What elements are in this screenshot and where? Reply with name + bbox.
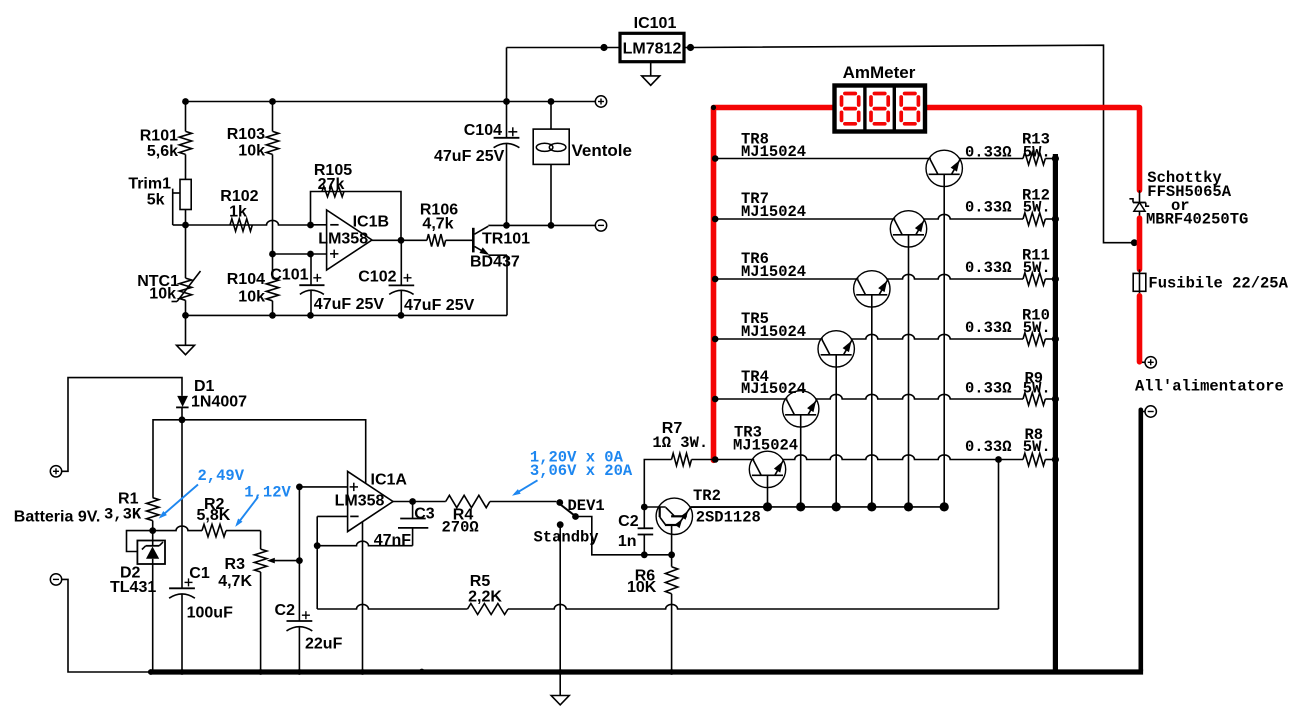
wire: battery - to ground rail bbox=[62, 579, 150, 672]
label R10 bbox=[1022, 307, 1050, 325]
wire: D1 node to IC1A V+ bbox=[182, 420, 366, 483]
svg-text:1,12V: 1,12V bbox=[244, 484, 291, 502]
capacitor C3 47nF bbox=[374, 502, 435, 549]
junction dot TR7 base bbox=[904, 502, 913, 511]
label TL431 bbox=[110, 579, 156, 596]
op-amp IC1A bbox=[335, 471, 408, 531]
wire: fan minus rail bbox=[507, 224, 596, 226]
wire: TR7 collector from red bus bbox=[714, 218, 895, 220]
svg-text:0.33Ω: 0.33Ω bbox=[965, 438, 1012, 456]
resistor R1 bbox=[104, 491, 159, 531]
resistor R105 feedback bbox=[311, 162, 402, 240]
node divider tap bbox=[296, 557, 303, 564]
wire: TR2 emitter bbox=[671, 525, 673, 555]
label 0.33ohm R13 bbox=[965, 143, 1012, 161]
transistor TR101 bbox=[470, 225, 530, 270]
label TR8 bbox=[741, 131, 769, 149]
label TR8 MJ15024 bbox=[741, 143, 806, 161]
terminal - All'alimentatore bbox=[1141, 406, 1156, 417]
svg-text:LM358: LM358 bbox=[335, 493, 385, 510]
svg-text:R104: R104 bbox=[227, 271, 265, 288]
junction dot TR6 base bbox=[867, 502, 876, 511]
svg-text:0.33Ω: 0.33Ω bbox=[965, 319, 1012, 337]
ammeter display box bbox=[835, 86, 926, 132]
label 2SD1128 bbox=[696, 509, 761, 527]
wire: TR5 emitter to R10 bbox=[851, 334, 1023, 339]
junction dot R11 bus bbox=[1052, 275, 1059, 282]
svg-text:0.33Ω: 0.33Ω bbox=[965, 259, 1012, 277]
svg-text:10k: 10k bbox=[238, 143, 265, 160]
svg-text:4,7k: 4,7k bbox=[422, 216, 453, 233]
svg-text:2,49V: 2,49V bbox=[198, 467, 245, 485]
wire: TR6 base drop bbox=[871, 295, 873, 507]
wire: IC1A output bbox=[393, 501, 413, 503]
label DEV1 bbox=[568, 497, 605, 515]
wire: TR2 emitter node rail bbox=[644, 554, 671, 556]
wire: TR3 base drop bbox=[767, 475, 769, 507]
transistor TR3 MJ15024 bbox=[749, 451, 785, 487]
svg-text:47uF 25V: 47uF 25V bbox=[434, 148, 505, 165]
label D2 bbox=[120, 565, 141, 582]
label TR6 bbox=[741, 250, 769, 268]
label All'alimentatore bbox=[1135, 378, 1284, 396]
svg-text:1k: 1k bbox=[229, 204, 247, 221]
svg-text:C3: C3 bbox=[414, 506, 435, 523]
svg-text:IC1A: IC1A bbox=[371, 472, 408, 489]
wire: IC1B + input bbox=[273, 253, 327, 255]
svg-text:MJ15024: MJ15024 bbox=[741, 203, 806, 221]
junction dot R12 bus bbox=[1052, 215, 1059, 222]
label TR7 MJ15024 bbox=[741, 203, 806, 221]
resistor R2 bbox=[153, 496, 261, 537]
terminal + All'alimentatore bbox=[1142, 357, 1156, 368]
terminal - (fan supply) bbox=[595, 220, 606, 231]
label R13 5W. bbox=[1023, 143, 1051, 161]
ground (main) bbox=[551, 672, 569, 705]
svg-text:MJ15024: MJ15024 bbox=[733, 437, 798, 455]
resistor R11 0.33ohm bbox=[1023, 273, 1053, 285]
svg-text:IC1B: IC1B bbox=[353, 214, 389, 231]
resistor R106 bbox=[401, 202, 473, 247]
node IC1A + input bbox=[296, 484, 303, 491]
ammeter label bbox=[843, 63, 916, 82]
svg-text:MJ15024: MJ15024 bbox=[741, 263, 806, 281]
svg-text:R101: R101 bbox=[140, 128, 178, 145]
junction dot TR5 base bbox=[832, 502, 841, 511]
wire: base rail TR2 to TR8 bbox=[691, 506, 945, 508]
svg-text:10k: 10k bbox=[238, 289, 265, 306]
ground (fan section) bbox=[177, 315, 195, 354]
trimmer R3 4,7K bbox=[218, 531, 299, 672]
svg-text:TR2: TR2 bbox=[693, 487, 721, 505]
svg-text:47uF 25V: 47uF 25V bbox=[314, 296, 385, 313]
resistor R10 0.33ohm bbox=[1023, 333, 1053, 345]
svg-text:0.33Ω: 0.33Ω bbox=[965, 143, 1012, 161]
junction dot R13 bus bbox=[1052, 155, 1059, 162]
junction dot R10 bus bbox=[1052, 335, 1059, 342]
wire: TR6 collector from red bus bbox=[714, 278, 859, 280]
capacitor C1 100uF bbox=[169, 420, 233, 672]
wire: black emitter bus bbox=[1053, 154, 1058, 671]
svg-text:Trim1: Trim1 bbox=[128, 176, 171, 193]
junction dot R102/R105/IC1B- bbox=[307, 222, 314, 229]
svg-text:3,06V x 20A: 3,06V x 20A bbox=[530, 462, 633, 480]
corner dot on red bus bbox=[711, 105, 716, 110]
svg-text:10k: 10k bbox=[149, 286, 176, 303]
junction dots on fan ground rail bbox=[182, 312, 404, 319]
label 0.33ohm R11 bbox=[965, 259, 1012, 277]
svg-text:1Ω 3W.: 1Ω 3W. bbox=[652, 434, 708, 452]
svg-text:R102: R102 bbox=[220, 188, 258, 205]
wire: sense feedback R8 to R5 bbox=[998, 460, 1000, 610]
node Trim1/NTC1/R102 bbox=[182, 222, 189, 229]
svg-text:MBRF40250TG: MBRF40250TG bbox=[1146, 211, 1248, 229]
label TR6 MJ15024 bbox=[741, 263, 806, 281]
wire: TR3 collector from red bus bbox=[714, 459, 754, 461]
wire: IC1A V- to ground bbox=[362, 522, 364, 672]
svg-text:BD437: BD437 bbox=[470, 254, 520, 271]
capacitor C104 bbox=[434, 102, 519, 226]
svg-text:2SD1128: 2SD1128 bbox=[696, 509, 761, 527]
resistor R6 bbox=[627, 555, 678, 672]
label 0.33ohm R9 bbox=[965, 380, 1012, 398]
svg-text:R3: R3 bbox=[225, 556, 246, 573]
diode D1 1N4007 bbox=[176, 378, 247, 420]
junction dot TR8 base bbox=[940, 502, 949, 511]
svg-text:5k: 5k bbox=[147, 192, 165, 209]
svg-text:LM7812: LM7812 bbox=[623, 41, 682, 58]
junction dot at schottky cathode wire bbox=[1131, 239, 1138, 246]
capacitor C101 bbox=[270, 254, 384, 315]
wire: TR8 collector from red bus bbox=[714, 158, 931, 160]
resistor R104 bbox=[227, 254, 279, 315]
wire: TR4 emitter to R9 bbox=[815, 394, 1023, 399]
svg-text:270Ω: 270Ω bbox=[442, 519, 479, 537]
wire: +12V top rail bbox=[186, 101, 596, 103]
junction dot TR4 base bbox=[796, 502, 805, 511]
resistor R8 0.33ohm bbox=[1023, 453, 1053, 465]
wire: TR7 base drop bbox=[908, 235, 910, 507]
wire: red ammeter to schottky bbox=[927, 108, 1140, 191]
resistor R101 bbox=[140, 102, 192, 180]
svg-text:100uF: 100uF bbox=[187, 605, 233, 622]
svg-text:C1: C1 bbox=[189, 565, 210, 582]
wire: red schottky to fuse bbox=[1137, 218, 1143, 269]
label 0.33ohm R10 bbox=[965, 319, 1012, 337]
svg-text:4,7K: 4,7K bbox=[218, 573, 252, 590]
label R11 5W. bbox=[1023, 259, 1051, 277]
label R9 bbox=[1025, 370, 1044, 388]
label 0.33ohm R8 bbox=[965, 438, 1012, 456]
svg-text:5W.: 5W. bbox=[1023, 143, 1051, 161]
wire: red collector bus bbox=[714, 108, 834, 461]
regulator IC101 LM7812 bbox=[620, 15, 684, 62]
junction dot red bus / TR6 bbox=[712, 276, 719, 283]
junction dot red bus / TR4 bbox=[712, 396, 719, 403]
junction dots on +12V rail bbox=[182, 98, 554, 105]
wire: main ground rail bbox=[150, 669, 1143, 674]
battery terminal + bbox=[50, 466, 61, 477]
junction dots minus rail bbox=[503, 222, 554, 229]
label TR5 MJ15024 bbox=[741, 323, 806, 341]
annotation 2,49V bbox=[159, 467, 245, 519]
junction dot TR2 emitter node bbox=[668, 551, 675, 558]
node R8 sense tap bbox=[995, 456, 1002, 463]
svg-text:All'alimentatore: All'alimentatore bbox=[1135, 378, 1284, 396]
thermistor NTC1 bbox=[137, 225, 200, 315]
op-amp IC1B bbox=[318, 210, 389, 270]
node R1/D2/R2 bbox=[149, 527, 156, 534]
svg-text:TR101: TR101 bbox=[482, 231, 530, 248]
label 0.33ohm R12 bbox=[965, 199, 1012, 217]
svg-text:MJ15024: MJ15024 bbox=[741, 323, 806, 341]
switch DEV1 common bbox=[556, 499, 563, 506]
wire Trim1 to node bbox=[185, 210, 187, 226]
svg-text:D1: D1 bbox=[194, 378, 215, 395]
wire: TL431 ref loop bbox=[127, 531, 153, 552]
svg-text:IC101: IC101 bbox=[634, 15, 677, 32]
resistor R12 0.33ohm bbox=[1023, 213, 1053, 225]
svg-text:5W.: 5W. bbox=[1023, 438, 1051, 456]
svg-text:5,8K: 5,8K bbox=[197, 507, 231, 524]
resistor R5 2,2K bbox=[317, 573, 998, 615]
label R8 bbox=[1025, 426, 1044, 444]
svg-text:AmMeter: AmMeter bbox=[843, 63, 916, 82]
battery terminal - bbox=[50, 574, 61, 585]
wire: IC1B output bbox=[372, 239, 401, 241]
wire: TR3 emitter to R8 bbox=[782, 455, 1023, 460]
wire: IC1A + input bbox=[299, 486, 347, 488]
svg-text:Standby: Standby bbox=[534, 529, 599, 547]
junction dot red bus / TR8 bbox=[712, 155, 719, 162]
svg-text:2,2K: 2,2K bbox=[468, 589, 502, 606]
label R8 5W. bbox=[1023, 438, 1051, 456]
svg-text:C104: C104 bbox=[464, 122, 502, 139]
label R10 5W. bbox=[1023, 319, 1051, 337]
wire: LM7812 output to schottky junction bbox=[684, 45, 1137, 243]
junction dots on + input bbox=[269, 251, 314, 258]
junction dot R9 bus bbox=[1052, 395, 1059, 402]
wire: TR5 base drop bbox=[835, 355, 837, 507]
svg-text:10K: 10K bbox=[627, 579, 657, 596]
junction dot TR2 base node bbox=[641, 504, 648, 511]
resistor R13 0.33ohm bbox=[1023, 152, 1053, 164]
node D1 cathode bbox=[179, 416, 186, 423]
label TR7 bbox=[741, 190, 769, 208]
shunt reference D2 TL431 bbox=[137, 531, 165, 672]
svg-text:1n: 1n bbox=[618, 533, 637, 550]
resistor R102 bbox=[186, 188, 311, 231]
svg-text:Ventole: Ventole bbox=[572, 141, 632, 160]
label Batteria 9V. bbox=[14, 509, 101, 526]
svg-text:Batteria 9V.: Batteria 9V. bbox=[14, 509, 101, 526]
junction dot red bus / TR5 bbox=[712, 336, 719, 343]
wire: DEV1 to TR2 node bbox=[576, 517, 645, 555]
junction dot C2/DEV1 node bbox=[641, 551, 648, 558]
node IC1A - / C3 / R5 bbox=[314, 542, 321, 549]
svg-text:R103: R103 bbox=[227, 126, 265, 143]
wire: fan section ground rail bbox=[186, 255, 508, 315]
transistor TR4 MJ15024 bbox=[783, 391, 819, 427]
wire: TR7 emitter to R12 bbox=[923, 214, 1023, 219]
switch Standby throw bbox=[557, 521, 564, 528]
svg-text:5W.: 5W. bbox=[1023, 319, 1051, 337]
svg-text:1N4007: 1N4007 bbox=[191, 394, 247, 411]
annotation 1,20V x 0A / 3,06V x 20A bbox=[512, 449, 633, 496]
pin dot LM7812 output bbox=[687, 44, 694, 51]
svg-text:22uF: 22uF bbox=[305, 636, 343, 653]
wire: Standby to ground bbox=[559, 525, 561, 672]
svg-text:LM358: LM358 bbox=[318, 231, 368, 248]
capacitor C2 22uF bbox=[275, 561, 343, 672]
fuse Fusibile bbox=[1133, 269, 1288, 295]
label R12 bbox=[1022, 187, 1050, 205]
junction dots on ground rail bbox=[148, 669, 675, 675]
svg-text:MJ15024: MJ15024 bbox=[741, 143, 806, 161]
junction dot red bus / TR7 bbox=[712, 216, 719, 223]
transistor TR2 2SD1128 bbox=[644, 498, 767, 534]
terminal + (fan supply) bbox=[595, 96, 606, 107]
svg-text:47nF: 47nF bbox=[374, 532, 412, 549]
resistor R4 270 bbox=[413, 495, 557, 536]
annotation 1,12V bbox=[235, 484, 291, 527]
wire: TR8 base drop bbox=[943, 174, 945, 507]
svg-text:MJ15024: MJ15024 bbox=[741, 380, 806, 398]
wire: IC1B - input bbox=[311, 224, 327, 226]
svg-text:C2: C2 bbox=[618, 513, 639, 530]
fan Ventole bbox=[533, 102, 632, 226]
trimmer Trim1 bbox=[128, 176, 191, 225]
pin dot LM7812 input bbox=[600, 44, 607, 51]
wire: TR4 collector from red bus bbox=[714, 398, 787, 400]
svg-text:5W.: 5W. bbox=[1023, 259, 1051, 277]
transistor TR5 MJ15024 bbox=[818, 331, 854, 367]
svg-text:47uF 25V: 47uF 25V bbox=[404, 297, 475, 314]
svg-text:DEV1: DEV1 bbox=[568, 497, 605, 515]
transistor TR7 MJ15024 bbox=[890, 211, 926, 247]
wire: TR4 base drop bbox=[800, 415, 802, 507]
junction dot TR3 base bbox=[763, 502, 772, 511]
label Standby bbox=[534, 529, 599, 547]
label R11 bbox=[1022, 247, 1050, 265]
wire: red fuse to + output bbox=[1137, 296, 1143, 362]
wire: divider tap to IC1A + bbox=[298, 487, 300, 561]
label TR5 bbox=[741, 310, 769, 328]
svg-text:Fusibile 22/25A: Fusibile 22/25A bbox=[1148, 275, 1288, 293]
label TR3 bbox=[734, 424, 762, 442]
node IC1B output bbox=[398, 237, 405, 244]
svg-text:C101: C101 bbox=[270, 267, 308, 284]
node IC1A output bbox=[409, 498, 416, 505]
resistor R103 bbox=[227, 102, 279, 255]
wire: IC1A - input loop bbox=[317, 516, 347, 609]
label R13 bbox=[1022, 131, 1050, 149]
wire: D1 node to R1 bbox=[153, 420, 182, 498]
switch DEV1 lever bbox=[559, 503, 575, 515]
schottky labels bbox=[1146, 169, 1248, 229]
svg-text:TL431: TL431 bbox=[110, 579, 156, 596]
label TR4 MJ15024 bbox=[741, 380, 806, 398]
svg-text:27k: 27k bbox=[318, 176, 345, 193]
wire: TR5 collector from red bus bbox=[714, 338, 823, 340]
label TR3 MJ15024 bbox=[733, 437, 798, 455]
svg-text:R5: R5 bbox=[470, 573, 491, 590]
junction dot R8 bus bbox=[1052, 456, 1059, 463]
svg-text:5,6k: 5,6k bbox=[147, 143, 178, 160]
ground (IC101) bbox=[642, 62, 660, 86]
label TR4 bbox=[741, 368, 769, 386]
svg-text:C102: C102 bbox=[358, 269, 396, 286]
resistor R9 0.33ohm bbox=[1023, 393, 1053, 405]
wire: black negative return bus bbox=[1139, 410, 1144, 671]
capacitor C102 bbox=[358, 240, 474, 315]
svg-text:0.33Ω: 0.33Ω bbox=[965, 199, 1012, 217]
capacitor C2 1n bbox=[618, 507, 653, 555]
svg-text:C2: C2 bbox=[275, 602, 296, 619]
wire: TR6 emitter to R11 bbox=[886, 274, 1023, 279]
wire: TR8 emitter to R13 bbox=[959, 158, 1023, 160]
label R12 5W. bbox=[1023, 199, 1051, 217]
schottky diode bbox=[1129, 190, 1149, 218]
label TR2 bbox=[693, 487, 721, 505]
resistor R7 bbox=[644, 420, 712, 507]
svg-text:3,3K: 3,3K bbox=[104, 506, 142, 524]
svg-text:5W.: 5W. bbox=[1023, 199, 1051, 217]
label R9 5W. bbox=[1023, 380, 1051, 398]
svg-text:5W.: 5W. bbox=[1023, 380, 1051, 398]
switch DEV1 throw bbox=[572, 513, 579, 520]
wire: battery + to D1 bbox=[62, 378, 182, 472]
svg-text:0.33Ω: 0.33Ω bbox=[965, 380, 1012, 398]
wire: C3 bottom to - node bbox=[317, 528, 412, 546]
ammeter 7-segment digits 888 bbox=[842, 94, 919, 124]
wire: LM7812 input bbox=[507, 48, 621, 102]
transistor TR6 MJ15024 bbox=[854, 271, 890, 307]
junction dot red bus / TR3 bbox=[712, 456, 719, 463]
transistor TR8 MJ15024 bbox=[926, 150, 962, 186]
